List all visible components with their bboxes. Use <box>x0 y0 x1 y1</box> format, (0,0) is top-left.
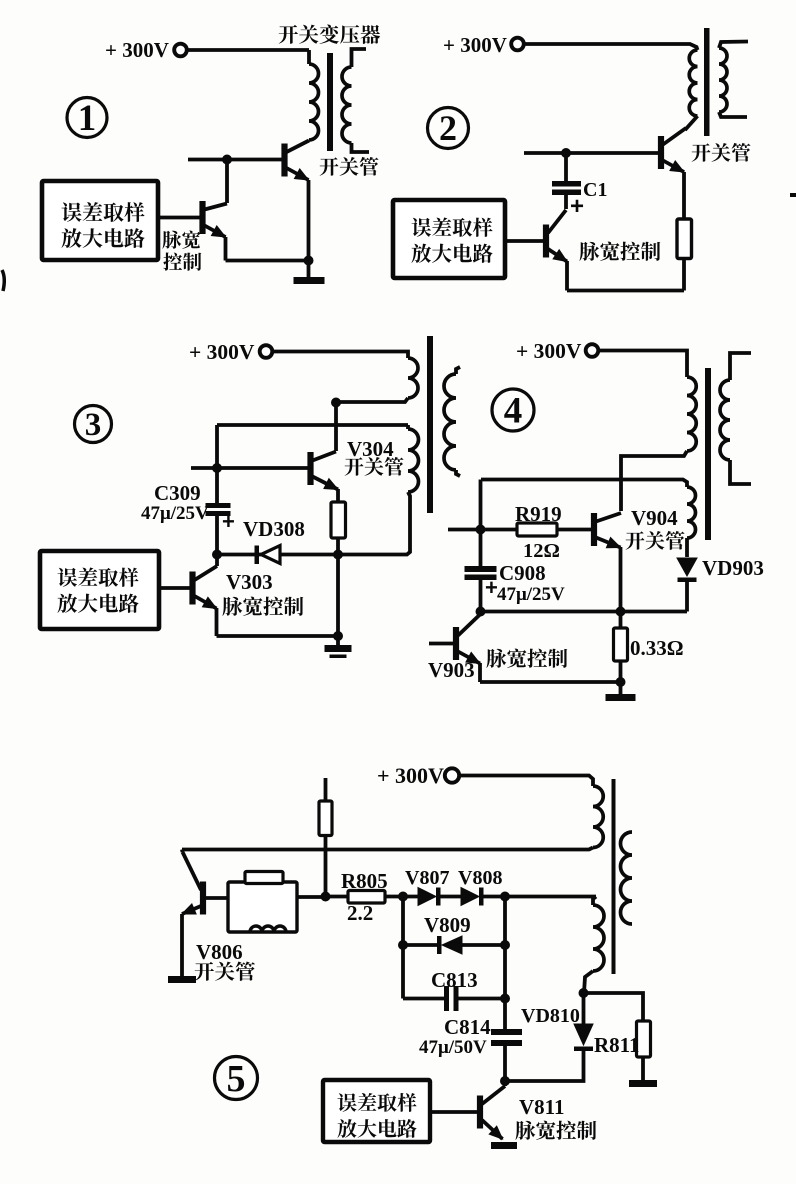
transistor V811 pulse width control <box>477 1096 483 1129</box>
svg-text:3: 3 <box>85 407 102 443</box>
wire +300V rail to transformer T4 <box>598 351 687 378</box>
node mid-rail / emitter junction <box>616 607 626 617</box>
wire T3 upper primary bottom lead <box>336 398 408 402</box>
box U1 误差取样放大电路 <box>42 181 158 260</box>
svg-text:R805: R805 <box>341 869 388 893</box>
node V809 right junction <box>500 940 510 950</box>
wire C908 bottom to lower junction <box>479 580 483 612</box>
wire V303 collector up to junction <box>215 555 219 567</box>
wire V806 base to network <box>206 896 228 900</box>
label 脉宽控制 (circuit 5) <box>515 1121 596 1140</box>
transistor V904 switch tube <box>591 513 597 546</box>
circuit 1: circled number 1 <box>67 98 107 138</box>
wire V304 emitter to resistor <box>336 489 340 502</box>
vertical resistor above (circuit 5) <box>324 778 328 801</box>
wire +300V rail to transformer T5 <box>459 776 593 787</box>
svg-text:V811: V811 <box>519 1095 565 1119</box>
node VD810/R811/drive junction <box>579 988 589 998</box>
wire Q4 emitter down to rail <box>565 261 569 291</box>
wire T4 secondary top lead <box>730 353 751 380</box>
wire left branch down (V809/C813) <box>401 897 405 999</box>
wire T2 secondary bottom lead <box>719 112 747 117</box>
wire Q3 base line <box>524 151 658 155</box>
wire junction down to C1 <box>564 153 568 181</box>
transformer T3 core <box>427 336 433 513</box>
svg-text:47μ/50V: 47μ/50V <box>419 1037 487 1058</box>
transistor V806 switch tube (mirrored) <box>200 882 206 915</box>
wire bottom rail (circuit 2) <box>567 289 684 293</box>
terminal +300V (circuit 1) <box>174 44 187 57</box>
svg-text:R919: R919 <box>515 502 562 526</box>
transformer T3 secondary winding <box>444 374 456 470</box>
svg-text:C908: C908 <box>499 561 546 585</box>
svg-text:V809: V809 <box>424 913 471 937</box>
transformer T4 secondary winding <box>720 380 730 460</box>
wire drive winding top lead <box>481 480 687 488</box>
svg-text:R811: R811 <box>594 1033 640 1057</box>
ground (R811) <box>629 1080 657 1087</box>
box U5 误差取样放大电路 <box>323 1080 430 1142</box>
transistor V303 pulse width control <box>189 572 195 605</box>
transformer T2 primary winding <box>689 50 697 116</box>
node junction upper winding / V304 collector <box>331 398 341 408</box>
node VD308 line / emitter junction <box>333 550 343 560</box>
terminal +300V (circuit 5) <box>445 768 459 782</box>
node C908/V903/rail junction <box>476 607 486 617</box>
node rail/ground junction (circuit 3) <box>333 631 343 641</box>
wire mid rail (circuit 4) <box>481 610 688 614</box>
wire left branch vertical <box>479 480 483 567</box>
circuit 2: circled number 2 <box>428 108 469 149</box>
ground (circuit 1) <box>307 261 311 278</box>
wire T1 secondary bottom lead <box>352 143 370 152</box>
terminal +300V (circuit 4) <box>586 344 599 357</box>
transformer T2 secondary winding <box>719 48 727 112</box>
label 脉宽控制 (circuit 3) <box>222 597 303 616</box>
svg-text:C1: C1 <box>583 179 607 201</box>
svg-text:V303: V303 <box>226 570 273 594</box>
wire V904 emitter down through 0.33 ohm <box>619 547 623 628</box>
transformer T3 lower (drive) winding <box>406 425 410 429</box>
diode V808 <box>461 888 479 906</box>
wire right branch down (to C814) <box>503 897 507 1030</box>
node base/C1 junction (circuit 2) <box>561 148 571 158</box>
transistor V304 switch tube <box>307 452 313 485</box>
wire T2 primary bottom to Q3 collector <box>685 116 698 130</box>
wire C309 bottom to VD308 node <box>215 516 219 555</box>
transformer T4 drive winding <box>687 487 696 538</box>
box U2 误差取样放大电路 <box>393 200 505 278</box>
svg-text:+ 300V: + 300V <box>516 339 582 363</box>
resistor 0.33Ω <box>614 628 628 661</box>
wire T5 drive winding top lead <box>593 897 596 906</box>
transformer T5 primary winding <box>593 786 603 848</box>
diode V809 on cross line <box>403 943 437 947</box>
svg-text:+: + <box>222 509 235 534</box>
label 开关管 (circuit 4) <box>626 531 685 550</box>
transformer T5 secondary winding <box>621 832 633 924</box>
wire V903 emitter down to ground rail <box>478 663 482 682</box>
node ground junction (circuit 4) <box>616 677 626 687</box>
scan artifact left edge <box>2 270 4 291</box>
node resistor/R805 junction <box>321 892 331 902</box>
scan artifact right edge dash <box>790 193 796 197</box>
transformer T3 primary winding upper <box>408 358 418 398</box>
wire T2 secondary top lead <box>719 42 748 49</box>
wire V304 base line <box>191 466 308 470</box>
wire base junction down to Q2 collector <box>225 160 229 204</box>
svg-text:C813: C813 <box>431 968 478 992</box>
transformer T2 core <box>704 28 710 136</box>
transistor Q1 switch tube <box>281 144 287 177</box>
label 开关管 (circuit 5 V806) <box>195 961 255 980</box>
wire V811 collector up to junction <box>503 1081 507 1086</box>
svg-text:C814: C814 <box>444 1015 491 1039</box>
capacitor C814 <box>491 1029 522 1035</box>
node V808/drive branch junction <box>500 892 510 902</box>
wire junction down to V304 collector <box>334 402 338 451</box>
capacitor C309 <box>206 503 231 508</box>
transistor Q2 pulse width control <box>199 201 205 234</box>
svg-text:+: + <box>485 575 498 600</box>
node emitter/rail junction (circuit 1) <box>304 256 314 266</box>
label 开关管 (circuit 1) <box>320 157 379 176</box>
transistor Q3 switch tube (circuit 2) <box>658 136 664 169</box>
svg-text:1: 1 <box>78 98 97 139</box>
svg-text:V806: V806 <box>196 940 243 964</box>
transformer T1 secondary winding <box>342 67 352 143</box>
transformer T4 primary winding <box>687 377 696 451</box>
ground (V806) <box>168 976 196 983</box>
capacitor C908 <box>465 566 497 572</box>
diode VD308 <box>255 546 260 565</box>
transformer T5 core <box>612 779 616 974</box>
capacitor C1 <box>552 181 581 187</box>
svg-text:V807: V807 <box>405 867 449 889</box>
svg-text:VD810: VD810 <box>521 1005 580 1027</box>
resistor emitter R (circuit 2) <box>682 172 686 219</box>
transformer T5 drive winding <box>593 905 604 971</box>
wire V904 base line with R919 <box>448 528 517 532</box>
base drive network of V806 (saturable transformer symbol) <box>228 882 297 932</box>
wire network to R805 line <box>297 895 326 899</box>
wire junction to VD810 bottom <box>505 1051 584 1081</box>
svg-text:2.2: 2.2 <box>347 901 373 925</box>
wire T4 secondary bottom lead <box>730 460 751 484</box>
resistor R811 <box>637 1021 651 1057</box>
diode VD810 <box>574 1047 593 1052</box>
label 脉宽控制 (circuit 1) <box>162 230 200 248</box>
node base junction (circuit 1) <box>222 155 232 165</box>
svg-text:+ 300V: + 300V <box>105 38 169 62</box>
svg-text:0.33Ω: 0.33Ω <box>630 636 684 660</box>
svg-text:12Ω: 12Ω <box>523 540 560 562</box>
box U3 误差取样放大电路 <box>40 551 159 629</box>
wire V303 emitter down to rail <box>215 608 219 636</box>
svg-text:47μ/25V: 47μ/25V <box>497 584 565 605</box>
transformer T4 core <box>705 368 711 540</box>
label 开关管 (circuit 2) <box>692 143 751 162</box>
svg-text:+ 300V: + 300V <box>443 33 507 57</box>
wire junction to R811 <box>584 993 644 1021</box>
node V809 left junction <box>398 940 408 950</box>
diode V807 <box>418 888 436 906</box>
ground (circuit 3) <box>336 636 340 645</box>
wire T3 lower winding top lead <box>217 423 408 427</box>
transistor Q4 pulse width control (circuit 2) <box>543 225 549 258</box>
svg-text:V808: V808 <box>458 867 502 889</box>
svg-text:VD308: VD308 <box>243 517 305 541</box>
wire drive winding bottom to VD903 <box>685 538 689 557</box>
wire T4 primary bottom lead to V904 collector line <box>621 451 687 511</box>
ground (circuit 4) <box>619 682 623 694</box>
svg-text:2: 2 <box>439 108 457 148</box>
resistor emitter R (circuit 3) <box>331 502 346 538</box>
transistor V903 pulse width control <box>453 627 459 660</box>
wire V903 collector up to junction <box>479 612 483 615</box>
terminal +300V (circuit 3) <box>260 345 273 358</box>
capacitor C813 <box>403 997 444 1001</box>
node R805/V809 branch junction <box>398 892 408 902</box>
label 脉宽控制 (circuit 4) <box>486 649 567 668</box>
transformer T1 core <box>327 53 333 151</box>
resistor R805 <box>326 895 349 899</box>
node base line / left branch junction <box>212 463 222 473</box>
wire T5 drive winding bottom lead <box>584 971 593 993</box>
terminal +300V (circuit 2) <box>511 38 524 51</box>
wire +300V rail to transformer T2 <box>524 44 698 50</box>
node C814/VD810/V811 junction <box>500 1076 510 1086</box>
svg-text:V903: V903 <box>428 658 475 682</box>
wire box to V811 base <box>430 1110 477 1114</box>
circuit 3: circled number 3 <box>75 406 112 443</box>
transformer T1 label 开关变压器 <box>279 24 380 43</box>
wire bottom rail (circuit 1) <box>226 259 310 263</box>
wire V903 base stub <box>429 642 453 646</box>
node C813 right junction <box>500 994 510 1004</box>
wire Q1 base line <box>188 158 282 162</box>
wire V806 collector to long line <box>180 850 184 853</box>
wire +300V rail to transformer T3 <box>272 352 408 359</box>
svg-text:+ 300V: + 300V <box>189 340 255 364</box>
wire V806 emitter down to ground <box>180 914 184 976</box>
wire Q2 emitter down to bottom rail <box>224 237 228 261</box>
node R919/left branch junction <box>476 525 486 535</box>
circuit 4: circled number 4 <box>492 389 534 431</box>
svg-text:47μ/25V: 47μ/25V <box>141 503 209 524</box>
ground (V811) <box>491 1142 517 1149</box>
circuit 5: circled number 5 <box>215 1057 258 1100</box>
node C309/VD308/V303 junction <box>212 550 222 560</box>
label 开关管 (circuit 3) <box>345 457 404 476</box>
svg-text:VD903: VD903 <box>702 556 764 580</box>
wire ground rail (circuit 4) <box>480 680 621 684</box>
wire T5 primary bottom lead (long line to V806 collector) <box>182 848 593 850</box>
diode VD903 <box>677 558 697 576</box>
wire C814 bottom to V811 collector junction <box>503 1046 507 1081</box>
wire box to Q4 base <box>505 239 543 243</box>
wire left branch vertical (top line to C309) <box>215 425 219 503</box>
svg-text:5: 5 <box>227 1058 246 1100</box>
wire T3 lower winding bottom lead <box>217 492 410 555</box>
wire T1 secondary top lead <box>352 49 367 67</box>
wire box to V303 base <box>159 586 190 590</box>
svg-text:V904: V904 <box>631 506 678 530</box>
wire box to Q2 base <box>158 216 200 220</box>
svg-text:V304: V304 <box>347 437 394 461</box>
svg-text:+ 300V: + 300V <box>377 763 444 788</box>
svg-text:4: 4 <box>504 391 523 432</box>
wire +300V rail to transformer T1 <box>187 48 310 52</box>
wire bottom rail (circuit 3) <box>217 634 339 638</box>
label 脉宽控制 (circuit 2) <box>579 242 660 261</box>
transformer T1 primary winding <box>307 50 311 64</box>
wire Q1 emitter down to rail <box>307 180 311 261</box>
svg-text:+: + <box>570 193 584 220</box>
wire C1 bottom to Q4 collector <box>564 195 568 209</box>
svg-text:C309: C309 <box>154 481 201 505</box>
resistor R919 <box>517 523 557 536</box>
